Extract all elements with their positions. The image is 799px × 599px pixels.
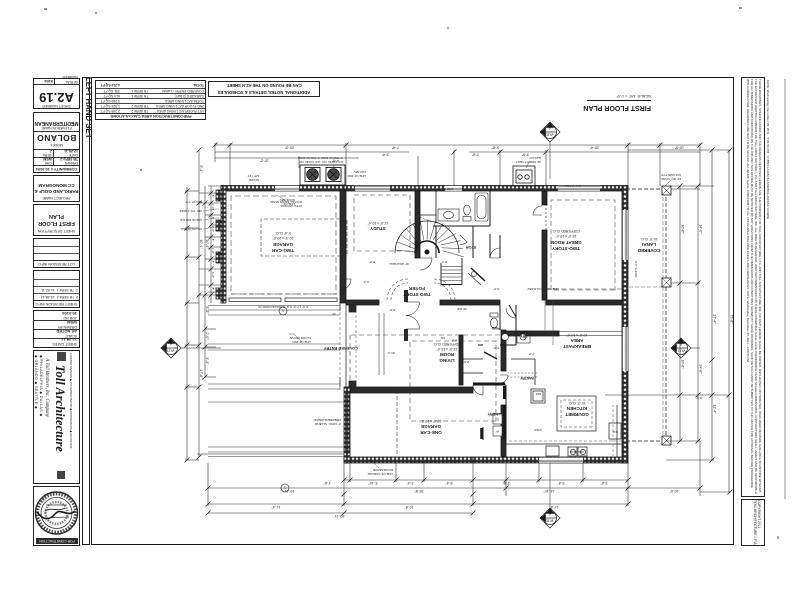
svg-text:W.20: W.20 xyxy=(546,133,554,137)
svg-text:10'-0": 10'-0" xyxy=(669,489,679,493)
svg-text:6'-8": 6'-8" xyxy=(389,308,395,312)
svg-text:20'-3" x 20'-0": 20'-3" x 20'-0" xyxy=(272,236,294,240)
svg-text:PWD: PWD xyxy=(491,326,500,330)
svg-text:LINE OF 2ND FLR ABV: LINE OF 2ND FLR ABV xyxy=(527,287,559,291)
svg-text:4: 4 xyxy=(549,126,551,130)
svg-text:3'-0": 3'-0" xyxy=(696,396,702,400)
svg-text:3'-8": 3'-8" xyxy=(205,306,209,314)
svg-text:75'-8": 75'-8" xyxy=(730,314,734,324)
svg-text:11'-4": 11'-4" xyxy=(271,505,281,509)
svg-text:10'-0" x 10'-0": 10'-0" x 10'-0" xyxy=(566,333,588,337)
svg-text:1'-4": 1'-4" xyxy=(211,272,215,278)
svg-text:TWO-CAR: TWO-CAR xyxy=(271,248,294,253)
svg-text:DN: DN xyxy=(441,336,445,340)
svg-text:W.21: W.21 xyxy=(167,349,175,353)
svg-text:6'-4": 6'-4" xyxy=(445,481,453,485)
svg-text:10'-0" x 19'-8": 10'-0" x 19'-8" xyxy=(420,419,442,423)
svg-text:LINE OF 2ND: LINE OF 2ND xyxy=(292,340,311,344)
svg-text:2'-8": 2'-8" xyxy=(463,360,469,364)
svg-text:W/ PULL DOWN STAIR: W/ PULL DOWN STAIR xyxy=(269,200,302,204)
svg-text:LINE OF 2ND: LINE OF 2ND xyxy=(347,174,366,178)
svg-text:3068 S.C.: 3068 S.C. xyxy=(441,187,454,191)
svg-text:FIBERMESH REINF.: FIBERMESH REINF. xyxy=(313,418,341,422)
svg-text:2'-0": 2'-0" xyxy=(205,332,209,340)
svg-text:4: 4 xyxy=(170,342,172,346)
svg-text:1'-0": 1'-0" xyxy=(211,204,215,210)
svg-text:COFFERED CLG.: COFFERED CLG. xyxy=(433,342,461,346)
svg-text:8": 8" xyxy=(211,217,215,220)
svg-text:1'-0": 1'-0" xyxy=(211,226,215,232)
svg-text:D: D xyxy=(496,418,499,422)
svg-text:10'-0": 10'-0" xyxy=(681,224,685,234)
svg-text:5'-4": 5'-4" xyxy=(199,165,203,173)
svg-text:2'-4": 2'-4" xyxy=(406,481,414,485)
svg-text:17'-8": 17'-8" xyxy=(199,369,203,379)
svg-text:DRY: DRY xyxy=(520,334,528,338)
svg-text:KITCHEN: KITCHEN xyxy=(566,406,587,411)
svg-text:AREA: AREA xyxy=(570,338,584,343)
svg-text:A/C COND. ON: A/C COND. ON xyxy=(299,160,320,164)
svg-text:W.I.C.: W.I.C. xyxy=(387,351,395,355)
svg-text:BAR: BAR xyxy=(520,330,528,334)
svg-text:A/C COND. ON: A/C COND. ON xyxy=(322,160,343,164)
svg-text:REF.: REF. xyxy=(535,392,541,396)
svg-text:14'-0": 14'-0" xyxy=(699,224,703,234)
svg-text:8": 8" xyxy=(211,239,215,242)
svg-text:16'-8" x 7'-0" O.H. GARAGE DOO: 16'-8" x 7'-0" O.H. GARAGE DOOR xyxy=(410,461,458,465)
svg-text:8'-4": 8'-4" xyxy=(441,260,447,264)
svg-text:4" PAD W/ DISC.: 4" PAD W/ DISC. xyxy=(297,156,320,160)
svg-text:ROOM: ROOM xyxy=(440,352,454,357)
svg-text:LIVING: LIVING xyxy=(439,358,455,363)
svg-text:FLR ABV: FLR ABV xyxy=(354,170,366,174)
svg-text:39'-8": 39'-8" xyxy=(414,489,424,493)
svg-text:STUDY: STUDY xyxy=(370,226,386,231)
svg-text:4" CONC. SLAB W/: 4" CONC. SLAB W/ xyxy=(315,422,341,426)
svg-text:GOURMET: GOURMET xyxy=(565,412,589,417)
svg-text:8": 8" xyxy=(211,195,215,198)
svg-text:PANTRY: PANTRY xyxy=(519,376,533,380)
svg-text:8": 8" xyxy=(211,288,215,291)
svg-text:FOYER: FOYER xyxy=(408,286,425,291)
svg-text:3'-10": 3'-10" xyxy=(368,481,378,485)
svg-text:10'-4": 10'-4" xyxy=(205,239,209,249)
svg-text:COLUMN TYP.: COLUMN TYP. xyxy=(661,173,681,177)
svg-text:1/8" / FT: 1/8" / FT xyxy=(247,174,259,178)
svg-text:42" HIGH WALL: 42" HIGH WALL xyxy=(388,262,409,266)
svg-text:3'-0": 3'-0" xyxy=(451,338,457,342)
svg-text:14'-10": 14'-10" xyxy=(543,489,555,493)
svg-text:8": 8" xyxy=(211,261,215,264)
svg-text:W: W xyxy=(496,430,499,434)
svg-text:1'-0": 1'-0" xyxy=(211,248,215,254)
svg-text:10'-4": 10'-4" xyxy=(199,239,203,249)
svg-text:8'-0" x 7'-0" O.H. GARAGE DOOR: 8'-0" x 7'-0" O.H. GARAGE DOOR (2) xyxy=(258,305,308,309)
svg-text:OVEN: OVEN xyxy=(534,428,541,432)
svg-text:5'-0": 5'-0" xyxy=(369,260,375,264)
svg-text:COVERED ENTRY: COVERED ENTRY xyxy=(324,346,359,351)
svg-text:2'-8": 2'-8" xyxy=(471,153,479,157)
svg-text:9'-8": 9'-8" xyxy=(491,146,499,150)
svg-text:24'-8": 24'-8" xyxy=(699,364,703,374)
svg-text:4'-4": 4'-4" xyxy=(363,280,369,284)
svg-text:TWO STORY: TWO STORY xyxy=(403,292,431,297)
svg-text:TWO-STORY: TWO-STORY xyxy=(552,246,580,251)
svg-text:3'-4": 3'-4" xyxy=(381,153,389,157)
svg-text:2'-8": 2'-8" xyxy=(471,302,477,306)
svg-text:10'-8": 10'-8" xyxy=(404,505,414,509)
svg-text:UP 18R: UP 18R xyxy=(457,307,467,311)
svg-text:5'-4": 5'-4" xyxy=(493,346,499,350)
svg-text:STOR: STOR xyxy=(466,245,477,249)
svg-text:GARAGE: GARAGE xyxy=(273,242,293,247)
svg-text:3'-8": 3'-8" xyxy=(600,481,608,485)
svg-text:8'-0" SLIDER: 8'-0" SLIDER xyxy=(565,184,581,188)
svg-text:UP: UP xyxy=(332,312,336,316)
svg-text:3'-4": 3'-4" xyxy=(205,357,209,365)
svg-text:3'-8": 3'-8" xyxy=(557,481,565,485)
svg-text:11'-5" x 10'-0": 11'-5" x 10'-0" xyxy=(367,221,388,225)
svg-text:W.21: W.21 xyxy=(678,349,686,353)
svg-text:ATTIC ACCESS: ATTIC ACCESS xyxy=(281,204,302,208)
svg-text:1: 1 xyxy=(281,309,284,314)
svg-text:10'-2": 10'-2" xyxy=(259,159,269,163)
svg-text:7'-4": 7'-4" xyxy=(391,146,399,150)
svg-text:10'-0" CLG.: 10'-0" CLG. xyxy=(640,237,658,241)
svg-text:COFFERED CLG.: COFFERED CLG. xyxy=(552,229,580,233)
svg-text:6'-0": 6'-0" xyxy=(493,287,499,291)
svg-text:GREAT ROOM: GREAT ROOM xyxy=(550,240,581,245)
svg-text:12'-8": 12'-8" xyxy=(549,505,559,509)
svg-text:ABV. TYP. 4 SIDES: ABV. TYP. 4 SIDES xyxy=(179,209,202,213)
svg-text:16'-11": 16'-11" xyxy=(283,489,295,493)
svg-text:16'-0" x 19'-0": 16'-0" x 19'-0" xyxy=(555,234,577,238)
svg-text:27'-4": 27'-4" xyxy=(713,314,717,324)
svg-text:4'-8" DH: 4'-8" DH xyxy=(414,184,424,188)
svg-text:4" PAD W/ DISC.: 4" PAD W/ DISC. xyxy=(320,156,343,160)
svg-text:9'-4" CLG.: 9'-4" CLG. xyxy=(275,231,291,235)
svg-text:10'-0": 10'-0" xyxy=(681,359,685,369)
svg-text:20'-3": 20'-3" xyxy=(284,146,294,150)
svg-text:GARAGE: GARAGE xyxy=(421,424,441,429)
svg-text:STL COL IN WALL: STL COL IN WALL xyxy=(180,227,202,231)
svg-text:12'-0" x 14'-0": 12'-0" x 14'-0" xyxy=(436,347,458,351)
svg-text:DOOR ABOVE: DOOR ABOVE xyxy=(373,468,393,472)
svg-text:BREAKFAST: BREAKFAST xyxy=(563,344,591,349)
svg-text:10'-0" CLG.: 10'-0" CLG. xyxy=(568,401,586,405)
svg-text:COVERED: COVERED xyxy=(637,248,660,253)
svg-text:2'-8": 2'-8" xyxy=(502,481,510,485)
svg-text:LINE OF GARAGE: LINE OF GARAGE xyxy=(368,472,393,476)
svg-text:8'-0" SLIDER: 8'-0" SLIDER xyxy=(634,261,638,277)
svg-text:3'-0": 3'-0" xyxy=(521,153,529,157)
svg-text:12'-4": 12'-4" xyxy=(713,404,717,414)
svg-text:1'-6": 1'-6" xyxy=(323,481,331,485)
svg-text:LNDRY: LNDRY xyxy=(487,412,500,416)
svg-text:20'-11": 20'-11" xyxy=(333,514,345,518)
svg-text:4: 4 xyxy=(549,512,551,516)
svg-text:10'-0": 10'-0" xyxy=(674,146,684,150)
svg-text:7'-0": 7'-0" xyxy=(528,352,534,356)
svg-text:W.20: W.20 xyxy=(546,519,554,523)
svg-text:20'-4": 20'-4" xyxy=(589,146,599,150)
svg-text:DBL SINK: DBL SINK xyxy=(570,450,584,454)
svg-text:GAS F.P.: GAS F.P. xyxy=(529,156,541,160)
svg-text:LANAI: LANAI xyxy=(642,242,656,247)
svg-text:SLOPE: SLOPE xyxy=(249,178,259,182)
svg-text:FLOOR ABOVE: FLOOR ABOVE xyxy=(290,336,311,340)
svg-text:BRG. PT. TYP.: BRG. PT. TYP. xyxy=(185,200,202,204)
svg-text:ONE-CAR: ONE-CAR xyxy=(420,430,442,435)
